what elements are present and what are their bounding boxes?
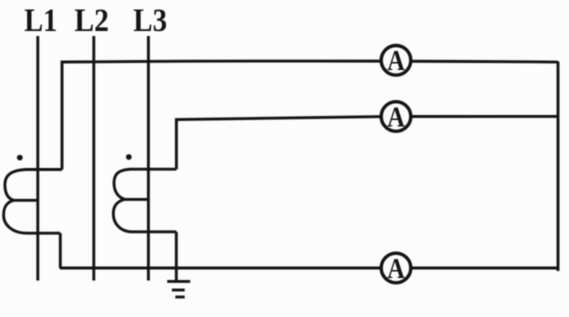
wire line L3 vertical <box>147 36 150 281</box>
wire top bus (CT1 secondary S1 to ammeter PA1) <box>62 61 558 169</box>
ammeter PA2 <box>381 100 411 132</box>
svg-text:L1: L1 <box>24 3 57 39</box>
transformer CT1 secondary winding on L1 <box>4 170 62 234</box>
wire second line (CT3 secondary S1 to ammeter PA2) <box>176 116 558 169</box>
ground symbol <box>167 281 190 297</box>
svg-text:L2: L2 <box>74 3 109 39</box>
svg-text:L3: L3 <box>133 3 167 39</box>
wire line L2 vertical <box>92 36 95 281</box>
wire CT1 winding mid tap to L1 <box>14 199 38 202</box>
wire CT1 S2 down to bottom bus <box>59 233 62 268</box>
ammeter PA1 <box>381 44 411 76</box>
wire bottom bus (common return to ammeter PA3) <box>60 267 558 270</box>
svg-text:A: A <box>387 252 405 284</box>
wire CT3 winding mid tap to L3 <box>125 198 149 201</box>
wire line L1 vertical <box>36 36 39 281</box>
wire right vertical bus <box>557 62 560 272</box>
svg-text:A: A <box>387 44 405 76</box>
transformer CT3 secondary winding on L3 <box>113 169 176 232</box>
svg-text:A: A <box>387 100 405 132</box>
ammeter PA3 <box>381 252 411 284</box>
polarity dot CT3 <box>126 154 132 160</box>
wire CT3 S2 down through bus to earth <box>175 232 178 282</box>
polarity dot CT1 <box>17 155 23 161</box>
